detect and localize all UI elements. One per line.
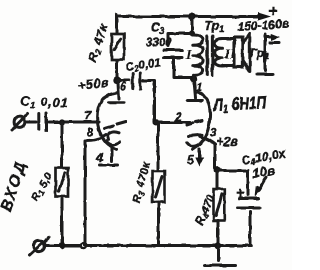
- resistor R1 lead bottom: [61, 199, 64, 245]
- wire node to C2: [117, 79, 129, 82]
- transformer core bars: [206, 36, 209, 75]
- C3 top wire: [168, 34, 192, 47]
- resistor R2 lead top: [116, 15, 119, 34]
- resistor R2 lead bottom: [116, 60, 119, 80]
- bottom rail wire: [45, 244, 252, 247]
- heater1 ground lead: [111, 146, 114, 161]
- svg-text:8: 8: [87, 127, 94, 139]
- wire grid2: [155, 121, 190, 124]
- triode V1 grid dashes: [105, 126, 114, 129]
- triode V1 heater: [106, 141, 120, 145]
- wire C2 to grid2: [143, 81, 155, 123]
- secondary top wire: [222, 37, 235, 40]
- triode V2 anode lead: [194, 80, 196, 98]
- triode V2 heater: [187, 143, 201, 147]
- node R1 bottom dot: [59, 242, 65, 248]
- svg-text:+2в: +2в: [216, 135, 238, 149]
- node C3 dot: [189, 30, 195, 36]
- triode V1 envelope arc: [97, 93, 116, 150]
- triode V2 cathode: [189, 135, 202, 136]
- triode V2 grid dashes: [187, 123, 194, 125]
- C3/primary lead: [191, 17, 194, 34]
- wire to C1: [25, 121, 36, 124]
- resistor R3: [153, 171, 165, 202]
- speaker cone: [243, 34, 250, 72]
- resistor R1 lead top: [61, 122, 64, 167]
- speaker voice coil: [234, 38, 242, 68]
- minus label: [270, 41, 279, 44]
- capacitor C4 lead bottom: [249, 212, 252, 246]
- triode V1 anode plate: [109, 101, 125, 104]
- resistor R2: [112, 34, 125, 60]
- resistor R3 lead bottom: [157, 202, 160, 245]
- transformer primary winding I: [193, 35, 204, 78]
- top supply rail wire: [117, 15, 262, 18]
- svg-text:7: 7: [85, 111, 92, 123]
- capacitor C2: [131, 74, 134, 89]
- ground lead: [217, 246, 220, 261]
- wire node to C4: [218, 169, 248, 172]
- triode V2 envelope arc: [193, 93, 211, 150]
- svg-text:6: 6: [120, 82, 127, 94]
- capacitor C4 bottom plate: [238, 207, 261, 210]
- transformer secondary winding II: [214, 38, 226, 66]
- resistor R4: [214, 189, 225, 221]
- negative lead wire: [264, 34, 267, 71]
- resistor R3 lead top: [157, 124, 160, 171]
- capacitor C1: [37, 114, 40, 130]
- cathode2 lead wire: [200, 137, 215, 169]
- node R1 dot: [59, 119, 65, 125]
- ground bar: [205, 264, 236, 267]
- C3 branch: top rail node dot: [188, 13, 195, 20]
- resistor R4 lead bottom: [217, 221, 220, 247]
- svg-text:4: 4: [95, 151, 103, 165]
- bottom terminal: [33, 240, 44, 251]
- C3 bottom wire: [174, 60, 191, 78]
- capacitor C4 lead top: [247, 170, 250, 195]
- node cathode2 dot: [214, 167, 221, 174]
- resistor R1: [56, 168, 69, 197]
- svg-text:I: I: [185, 48, 192, 63]
- ground bar heater1: [100, 164, 119, 167]
- minus supply arrow: [265, 36, 272, 39]
- node cathode1 bottom dot: [81, 243, 86, 248]
- capacitor C4 top plate: [239, 197, 259, 200]
- secondary bottom wire: [222, 64, 234, 67]
- triode V1 cathode: [108, 132, 119, 140]
- node grid2 dot: [153, 120, 159, 126]
- node anode2 dot: [190, 75, 197, 82]
- capacitor C3: [164, 49, 183, 52]
- wire C1 to grid1: [49, 121, 100, 124]
- C4 pointer arrow: [259, 177, 266, 190]
- + supply arrowhead: [258, 13, 271, 21]
- cathode1 lead wire: [85, 135, 106, 245]
- negative terminal bar: [257, 73, 273, 76]
- resistor R4 lead top: [216, 171, 219, 189]
- node R4 bottom dot: [215, 243, 222, 250]
- svg-text:5: 5: [187, 153, 194, 167]
- heater2 arrow: [198, 149, 201, 159]
- svg-text:2: 2: [174, 112, 182, 124]
- input terminal: [14, 117, 25, 128]
- triode V2 anode plate: [188, 99, 203, 102]
- triode V1 anode lead: [118, 83, 119, 99]
- node anode1 +50v dot: [113, 76, 120, 83]
- svg-text:3300: 3300: [146, 37, 172, 49]
